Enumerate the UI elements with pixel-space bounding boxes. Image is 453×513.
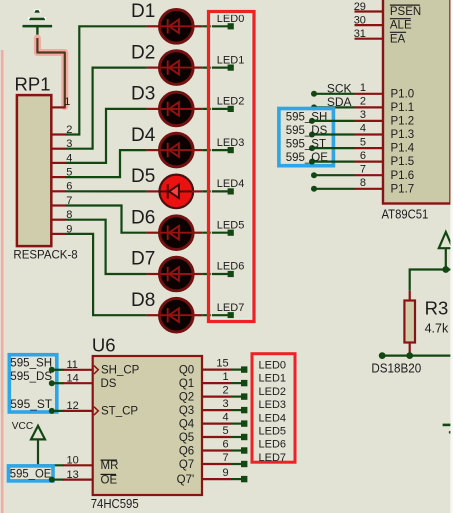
svg-text:8: 8	[360, 177, 366, 189]
node LED3 terminal	[217, 137, 245, 153]
wire 595_ST to pin 5	[312, 147, 355, 149]
wire Q3 to terminal	[231, 409, 241, 411]
U6 pin 1 Q1	[179, 371, 231, 390]
wire 595_ST to pin 12	[52, 410, 64, 412]
wire Q0 to terminal	[231, 369, 241, 371]
svg-text:74HC595: 74HC595	[91, 496, 139, 511]
svg-text:P1.6: P1.6	[391, 170, 415, 182]
node terminal pin 7	[241, 461, 247, 467]
wire 595_SH to pin 11	[52, 369, 64, 371]
U6 pin 6 Q6	[179, 439, 231, 458]
wire D8 cathode to terminal LED7	[202, 314, 228, 316]
svg-text:595_OE: 595_OE	[10, 469, 52, 481]
wire RP1 pin 8 to D7	[66, 220, 147, 274]
svg-text:P1.0: P1.0	[391, 88, 415, 100]
svg-text:LED1: LED1	[217, 54, 245, 66]
AT89C51 pin 29 PSEN	[354, 1, 422, 18]
svg-text:VCC: VCC	[12, 420, 34, 432]
node terminal pin 1	[241, 380, 247, 386]
svg-text:DS18B20: DS18B20	[371, 360, 421, 375]
svg-text:DS: DS	[101, 378, 117, 390]
RP1 pin 3	[51, 138, 72, 150]
wire stub to pin 8	[311, 186, 355, 192]
svg-text:LED4: LED4	[217, 178, 245, 190]
svg-text:LED4: LED4	[259, 412, 287, 424]
LED D8	[131, 290, 202, 332]
wire (highlighted) ground to RP1 pin1	[37, 38, 64, 107]
mcu U? AT89C51 body	[382, 0, 451, 222]
wire DQ line under R3	[382, 355, 453, 357]
svg-text:D8: D8	[131, 290, 155, 311]
svg-text:Q4: Q4	[179, 418, 195, 430]
svg-text:EA: EA	[390, 33, 406, 45]
wire RP1 pin 5 to D4	[66, 150, 147, 177]
power VCC arrow (right)	[439, 232, 453, 270]
svg-text:OE: OE	[101, 474, 118, 486]
resistor pack RP1 body	[13, 73, 78, 261]
wire stub at right edge (DS18B20)	[443, 425, 452, 434]
wire D4 cathode to terminal LED3	[202, 149, 228, 151]
svg-text:R3: R3	[425, 298, 449, 319]
wire RP1 pin 6 to D5	[66, 190, 147, 192]
node 595_OE (to P1.5)	[286, 152, 329, 165]
svg-text:AT89C51: AT89C51	[382, 207, 429, 222]
wire D1 cathode to terminal LED0	[202, 25, 228, 27]
svg-text:MR: MR	[101, 460, 119, 472]
U6 pin 12 ST_CP	[63, 400, 138, 418]
U6 pin 13 OE	[63, 469, 117, 487]
svg-text:595_SH: 595_SH	[10, 358, 52, 370]
svg-text:P1.1: P1.1	[391, 102, 415, 114]
wire 595_DS to pin 4	[312, 133, 355, 135]
wire highlighted pink vertical at left edge	[1, 50, 4, 513]
svg-text:LED2: LED2	[259, 386, 287, 398]
svg-text:4.7k: 4.7k	[425, 322, 449, 336]
svg-text:595_DS: 595_DS	[10, 371, 52, 383]
wire 595_OE to pin 6	[312, 161, 355, 163]
RP1 pin 4	[51, 152, 72, 164]
wire Q2 to terminal	[231, 396, 241, 398]
node terminal pin 2	[241, 393, 247, 399]
svg-text:D7: D7	[131, 249, 155, 270]
wire VCC to pin 10 MR	[38, 464, 64, 466]
svg-text:2: 2	[222, 385, 228, 397]
annotation blue box around 595_OE	[9, 466, 54, 481]
U6 pin 14 DS	[63, 372, 117, 390]
AT89C51 pin 1 P1.0	[355, 82, 415, 100]
svg-text:LED5: LED5	[217, 219, 245, 231]
svg-text:ST_CP: ST_CP	[101, 406, 138, 418]
svg-text:9: 9	[222, 467, 228, 479]
U6 pin 15 Q0	[179, 358, 231, 377]
AT89C51 pin 7 P1.6	[355, 163, 415, 181]
U6 pin 5 Q5	[179, 425, 231, 444]
U6 pin 10 MR	[63, 455, 118, 473]
RP1 pin 6	[51, 181, 72, 193]
annotation red box around LED0-LED7 net labels	[252, 354, 295, 463]
wire RP1 pin 9 to D8	[66, 234, 147, 315]
svg-text:P1.2: P1.2	[391, 116, 415, 128]
AT89C51 pin 6 P1.5	[355, 150, 415, 168]
shift register U6 74HC595 body	[91, 335, 202, 511]
svg-text:LED5: LED5	[259, 426, 287, 438]
power VCC arrow (left)	[31, 426, 45, 466]
node terminal pin 5	[241, 434, 247, 440]
svg-text:30: 30	[354, 15, 366, 27]
node LED2 terminal	[217, 96, 245, 112]
AT89C51 pin 31 EA	[354, 28, 406, 45]
svg-text:29: 29	[354, 1, 366, 13]
junction VCC/R3	[442, 266, 449, 273]
svg-text:RESPACK-8: RESPACK-8	[13, 248, 78, 262]
wire D2 cathode to terminal LED1	[202, 66, 228, 68]
AT89C51 pin 4 P1.3	[355, 123, 415, 141]
svg-text:LED6: LED6	[259, 439, 287, 451]
wire Q7' to terminal	[231, 478, 241, 480]
svg-text:2: 2	[360, 96, 366, 108]
svg-text:1: 1	[64, 96, 70, 108]
wire Q4 to terminal	[231, 423, 241, 425]
svg-text:P1.5: P1.5	[391, 156, 415, 168]
wire 595_SH to pin 3	[312, 120, 355, 122]
RP1 pin 9	[51, 223, 72, 235]
wire RP1 pin 3 to D2	[66, 68, 147, 149]
svg-text:Q6: Q6	[179, 445, 194, 457]
AT89C51 pin 3 P1.2	[355, 109, 415, 127]
node 595_OE label	[10, 469, 55, 483]
wire D5 cathode to terminal LED4	[202, 190, 228, 192]
svg-text:13: 13	[67, 469, 79, 481]
wire 595_OE to pin 13	[52, 479, 64, 481]
wire Q7 to terminal	[231, 463, 241, 465]
svg-text:Q7: Q7	[179, 459, 194, 471]
svg-text:15: 15	[216, 358, 228, 370]
U6 pin 3 Q3	[179, 398, 231, 417]
AT89C51 pin 30 ALE	[354, 15, 412, 32]
node terminal pin 6	[241, 447, 247, 453]
LED D6	[131, 207, 202, 249]
svg-text:D2: D2	[131, 42, 155, 63]
wire SCK to pin1	[314, 93, 355, 95]
svg-text:14: 14	[67, 372, 79, 384]
node 595_SH label	[10, 358, 55, 373]
svg-text:LED7: LED7	[217, 302, 245, 314]
LED D4	[131, 125, 202, 167]
svg-text:P1.3: P1.3	[391, 129, 415, 141]
svg-text:5: 5	[360, 136, 366, 148]
wire Q1 to terminal	[231, 382, 241, 384]
RP1 pin 5	[51, 167, 72, 179]
RP1 pin 8	[51, 209, 72, 221]
RP1 pin 2	[51, 124, 72, 136]
svg-text:10: 10	[67, 455, 79, 467]
svg-text:PSEN: PSEN	[390, 6, 421, 18]
node SDA	[311, 95, 352, 110]
svg-text:7: 7	[360, 163, 366, 175]
wire Q5 to terminal	[231, 436, 241, 438]
node DS18B20 DQ	[371, 352, 421, 375]
right white margin strip	[450, 0, 453, 513]
junction R3 bottom	[406, 352, 413, 359]
wire SDA to pin2	[314, 106, 355, 108]
svg-text:D4: D4	[131, 125, 156, 146]
node 595_ST (to P1.4)	[286, 139, 326, 152]
node LED6 terminal	[217, 261, 245, 277]
annotation blue box around 595_SH..595_OE	[279, 109, 334, 166]
RP1 pin 1	[51, 106, 65, 108]
svg-text:5: 5	[222, 425, 228, 437]
node 595_DS (to P1.3)	[286, 125, 328, 138]
svg-text:Q5: Q5	[179, 432, 194, 444]
svg-text:595_ST: 595_ST	[10, 399, 52, 411]
svg-text:Q2: Q2	[179, 391, 194, 403]
node terminal pin 9	[241, 476, 247, 482]
svg-text:D3: D3	[131, 84, 155, 105]
svg-text:3: 3	[360, 109, 366, 121]
node 595_SH (to P1.2)	[286, 111, 328, 124]
node LED4 terminal	[217, 178, 245, 194]
wire D3 cathode to terminal LED2	[202, 108, 228, 110]
svg-text:4: 4	[222, 412, 228, 424]
RP1 pin 7	[51, 195, 72, 207]
svg-text:LED3: LED3	[259, 399, 287, 411]
node 595_ST label	[10, 399, 55, 414]
node SCK	[311, 81, 352, 96]
svg-text:P1.7: P1.7	[391, 183, 415, 195]
U6 pin 2 Q2	[179, 385, 231, 404]
svg-text:D6: D6	[131, 207, 155, 228]
node LED7 terminal	[217, 302, 245, 318]
wire RP1 pin 2 to D1	[66, 26, 147, 134]
wire D7 cathode to terminal LED6	[202, 273, 228, 275]
LED D2	[131, 42, 202, 84]
node 595_DS label	[10, 371, 55, 386]
svg-text:6: 6	[360, 150, 366, 162]
wire VCC rail to R3 top	[410, 270, 451, 291]
svg-text:1: 1	[222, 371, 228, 383]
svg-text:Q7': Q7'	[177, 474, 195, 486]
annotation red box around LED0-LED7 terminals	[209, 12, 255, 322]
U6 pin 4 Q4	[179, 412, 231, 431]
svg-text:Q1: Q1	[179, 378, 194, 390]
wire D6 cathode to terminal LED5	[202, 232, 228, 234]
AT89C51 pin 8 P1.7	[355, 177, 415, 195]
node terminal pin 15	[241, 366, 247, 372]
U6 pin 9 Q7'	[177, 467, 231, 486]
node terminal pin 4	[241, 420, 247, 426]
svg-text:U6: U6	[92, 335, 116, 356]
LED D3	[131, 84, 202, 126]
svg-text:11: 11	[67, 359, 78, 371]
svg-text:1: 1	[360, 82, 366, 94]
AT89C51 pin 2 P1.1	[355, 96, 415, 114]
svg-text:4: 4	[360, 123, 366, 135]
svg-text:RP1: RP1	[15, 73, 51, 94]
wire stub to pin 7	[311, 172, 355, 178]
svg-text:12: 12	[67, 400, 79, 412]
svg-text:LED7: LED7	[259, 452, 287, 464]
svg-text:LED1: LED1	[259, 373, 287, 385]
node LED0 terminal	[217, 13, 245, 29]
resistor R3	[404, 291, 449, 356]
svg-text:D5: D5	[131, 166, 155, 187]
svg-text:LED6: LED6	[217, 261, 245, 273]
ground (earth) symbol top-left	[22, 9, 53, 39]
svg-text:Q3: Q3	[179, 405, 194, 417]
svg-text:P1.4: P1.4	[391, 143, 415, 155]
wire RP1 pin 7 to D6	[66, 206, 147, 233]
svg-text:LED3: LED3	[217, 137, 245, 149]
U6 pin 7 Q7	[179, 452, 231, 471]
annotation blue box around 595_SH/DS/ST	[9, 355, 57, 412]
svg-text:31: 31	[354, 28, 366, 40]
svg-text:6: 6	[222, 439, 228, 451]
LED D1	[131, 1, 202, 43]
U6 pin 11 SH_CP	[63, 359, 140, 377]
wire RP1 pin 4 to D3	[66, 109, 147, 163]
svg-text:D1: D1	[131, 1, 155, 22]
svg-text:Q0: Q0	[179, 364, 194, 376]
node LED5 terminal	[217, 219, 245, 235]
node LED1 terminal	[217, 54, 245, 70]
wire 595_DS to pin 14	[52, 382, 64, 384]
svg-text:SH_CP: SH_CP	[101, 365, 140, 377]
svg-text:7: 7	[222, 452, 228, 464]
wire Q6 to terminal	[231, 449, 241, 451]
AT89C51 pin 5 P1.4	[355, 136, 415, 154]
svg-text:3: 3	[222, 398, 228, 410]
LED D7	[131, 249, 202, 291]
svg-text:ALE: ALE	[390, 20, 412, 32]
svg-text:LED0: LED0	[259, 359, 287, 371]
LED D5	[131, 166, 202, 208]
node terminal pin 3	[241, 407, 247, 413]
svg-text:LED2: LED2	[217, 96, 245, 108]
